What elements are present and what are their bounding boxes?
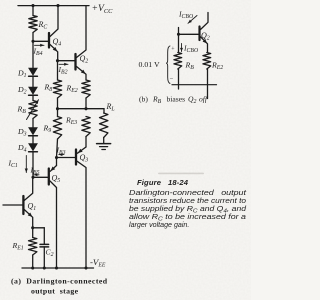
svg-text:(b): (b) bbox=[139, 94, 148, 103]
svg-text:Figure 18-24: Figure 18-24 bbox=[137, 178, 189, 187]
svg-text:(a) Darlington-connected: (a) Darlington-connected bbox=[11, 276, 108, 285]
svg-text:output stage: output stage bbox=[31, 286, 79, 295]
svg-text:+: + bbox=[171, 47, 175, 53]
svg-text:larger voltage gain.: larger voltage gain. bbox=[129, 221, 189, 229]
svg-text:biases: biases bbox=[167, 94, 186, 103]
svg-text:0.01 V: 0.01 V bbox=[139, 60, 160, 69]
svg-text:off: off bbox=[199, 94, 208, 103]
svg-text:−: − bbox=[170, 76, 174, 83]
svg-text:Darlington-connected output: Darlington-connected output bbox=[129, 189, 247, 197]
svg-text:transistors reduce the current: transistors reduce the current to bbox=[129, 197, 246, 205]
